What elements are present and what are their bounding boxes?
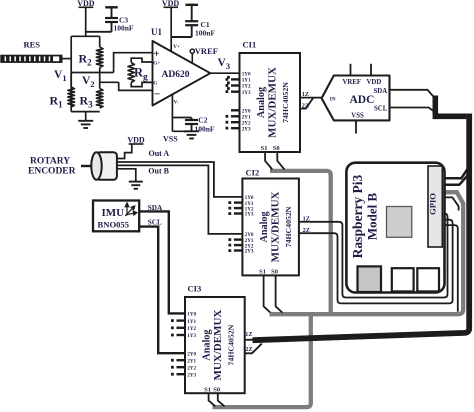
svg-text:VSS: VSS [351,113,364,120]
svg-text:SCL: SCL [374,105,388,112]
svg-text:2Y3: 2Y3 [187,372,196,378]
svg-text:VDD: VDD [367,79,382,86]
svg-text:CI2: CI2 [246,168,260,178]
svg-text:74HC4052N: 74HC4052N [284,206,293,247]
svg-text:S0: S0 [271,269,278,276]
svg-text:Analog: Analog [259,211,270,242]
svg-text:74HC4052N: 74HC4052N [227,324,236,365]
svg-text:100nF: 100nF [195,125,215,134]
svg-text:2Z: 2Z [302,102,309,109]
svg-text:Out B: Out B [148,166,169,175]
svg-text:Analog: Analog [202,330,213,361]
svg-text:S1: S1 [259,269,266,276]
svg-text:GPIO: GPIO [427,193,437,215]
svg-text:Raspberry Pi3: Raspberry Pi3 [350,174,365,258]
svg-text:AD620: AD620 [162,70,190,80]
svg-text:1Y1: 1Y1 [187,319,196,325]
svg-text:G: G [153,81,157,87]
svg-text:CI1: CI1 [243,40,257,50]
svg-text:CI3: CI3 [188,284,202,294]
svg-text:1Z: 1Z [245,331,252,338]
svg-text:V-: V- [174,100,179,106]
svg-text:2Y3: 2Y3 [242,126,251,132]
svg-text:V+: V+ [173,44,180,50]
svg-text:S1: S1 [204,386,211,393]
svg-text:S0: S0 [213,386,220,393]
svg-text:1Y3: 1Y3 [245,212,254,218]
svg-text:S1: S1 [261,145,268,152]
svg-text:Model B: Model B [365,193,380,241]
svg-text:2Y0: 2Y0 [187,351,196,357]
svg-text:100nF: 100nF [114,24,134,33]
svg-text:S0: S0 [273,145,280,152]
svg-text:1Y3: 1Y3 [242,90,251,96]
svg-text:2Y3: 2Y3 [245,249,254,255]
svg-text:SDA: SDA [374,88,388,95]
svg-text:2Y2: 2Y2 [187,365,196,371]
svg-text:ADC: ADC [350,94,375,106]
svg-text:MUX/DEMUX: MUX/DEMUX [267,67,279,138]
svg-text:2Z: 2Z [245,346,252,353]
svg-text:2Z: 2Z [303,227,310,234]
svg-text:IMU: IMU [102,207,125,219]
svg-text:1Y0: 1Y0 [187,312,196,318]
svg-text:VSS: VSS [163,135,178,144]
svg-text:1Y2: 1Y2 [187,326,196,332]
svg-text:VREF: VREF [343,79,362,86]
svg-text:1Y2: 1Y2 [242,84,251,90]
svg-text:Analog: Analog [256,87,267,118]
svg-text:1Z: 1Z [303,215,310,222]
svg-text:74HC4052N: 74HC4052N [281,82,290,123]
svg-text:+: + [153,48,159,60]
svg-text:Out A: Out A [149,149,170,158]
svg-text:MUX/DEMUX: MUX/DEMUX [212,310,224,381]
svg-text:U1: U1 [151,27,162,37]
svg-text:100nF: 100nF [195,29,215,38]
svg-text:RES: RES [24,40,41,50]
svg-text:MUX/DEMUX: MUX/DEMUX [269,191,281,262]
svg-text:SCL: SCL [148,218,162,226]
svg-text:ENCODER: ENCODER [28,167,76,177]
svg-text:IN: IN [330,96,336,102]
svg-text:2Y1: 2Y1 [187,358,196,364]
svg-text:1Y0: 1Y0 [242,71,251,77]
svg-text:1Y1: 1Y1 [242,78,251,84]
svg-text:ROTARY: ROTARY [30,157,70,167]
svg-text:1Z: 1Z [302,91,309,98]
svg-text:1Y3: 1Y3 [187,333,196,339]
svg-text:BNO055: BNO055 [98,220,130,230]
svg-text:C2: C2 [198,116,207,125]
svg-text:VREF: VREF [195,46,218,56]
svg-text:−: − [154,89,160,101]
svg-text:SDA: SDA [148,204,163,212]
svg-text:G+: G+ [153,61,160,67]
svg-text:VDD: VDD [127,136,145,145]
